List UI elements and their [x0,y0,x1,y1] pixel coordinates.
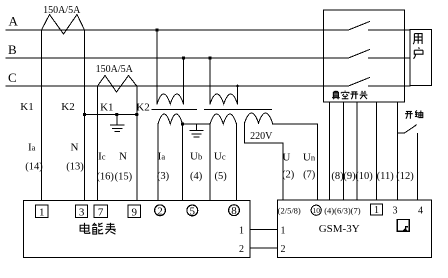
terminal number 3 GSM [393,206,398,217]
terminal number 5 meter [190,205,196,217]
svg-text:10: 10 [312,206,320,215]
wire PT2 primary return to phase C [237,86,239,104]
wire K2-K2 common link [85,114,137,116]
ground CT secondary [111,115,125,132]
terminal number 3 meter [79,206,85,218]
part label 开铀 switch [405,110,423,118]
wire PT2 secondary mid down [209,124,211,201]
svg-text:(13): (13) [66,162,84,173]
phase bus B [6,57,410,59]
node B tap PT2 [208,56,211,59]
pin label (2/5/8) GSM [278,206,301,216]
transformer PT2 secondary winding [210,114,237,124]
net label Un [303,152,316,164]
wire 220V left to GSM terminal 2/5/8 [245,123,284,200]
pin number 2 meter side [239,244,244,255]
switch blade phase A [349,22,370,31]
wire CT1 K1 to meter terminal 1 [41,30,43,201]
switch 开铀 stub [398,132,405,134]
svg-text:(5): (5) [214,171,227,182]
node A tap [155,28,158,31]
svg-text:2: 2 [281,244,286,255]
net label N CT2 [119,151,127,163]
net label Ic CT2 [98,151,106,163]
terminal 9 meter [128,205,141,217]
transformer PT2 primary winding [210,94,238,104]
svg-text:(12): (12) [396,171,414,182]
net label C [8,70,17,85]
value label CT1 150A/5A [43,5,81,16]
wire CT2 K1 to meter terminal 7 [97,86,99,201]
wire 220V right to GSM terminal 10 [273,124,318,200]
svg-text:3: 3 [79,206,85,218]
wire breaker to GSM terminal 6/3 [343,102,345,200]
svg-text:(10): (10) [355,171,373,182]
transformer PT1 secondary winding [158,114,183,124]
terminal 1 GSM box [371,204,383,215]
svg-text:1: 1 [239,226,244,237]
pin number 2 GSM side [281,244,286,255]
svg-text:Ic: Ic [98,151,106,163]
svg-text:8: 8 [231,205,237,217]
svg-text:150A/5A: 150A/5A [43,5,81,16]
pin label (2) [282,170,295,181]
terminal 1 meter [35,205,48,217]
pin label (9) [343,171,356,182]
net label Ia CT1 [28,142,36,154]
value label CT2 150A/5A [96,64,134,75]
wire breaker to GSM terminal 4(a) [329,102,331,200]
svg-text:N: N [119,151,127,163]
svg-text:Ub: Ub [190,151,202,163]
terminal number 7 meter [98,206,104,218]
svg-text:Un: Un [303,152,316,164]
svg-text:(16): (16) [96,172,114,183]
terminal number 8 meter [231,205,237,217]
antenna box GSM [397,220,409,232]
svg-text:Ia: Ia [158,151,166,163]
pin label K2 CT1 [61,101,74,113]
terminal number 4 GSM [418,206,423,217]
svg-text:150A/5A: 150A/5A [96,64,134,75]
svg-text:(2/5/8): (2/5/8) [278,206,301,216]
svg-text:U: U [282,152,290,164]
phase bus C [6,85,410,87]
svg-text:(11): (11) [377,171,395,182]
wire breaker to GSM terminal 1 [376,102,378,200]
net label A [9,14,19,29]
node C tap PT2 [236,85,239,88]
part label 用户 (user) [413,34,423,59]
terminal number 9 meter [131,206,137,218]
pin label (16) [96,172,114,183]
svg-text:220V: 220V [250,131,273,142]
GSM-3Y box [277,200,431,257]
svg-text:K1: K1 [20,101,33,113]
CT1 150A/5A on phase A [42,15,85,35]
net label B [8,42,17,57]
net label Ia PT [158,151,166,163]
svg-text:5: 5 [190,205,196,217]
wire PT1 primary return to phase B [183,58,185,104]
transformer PT1 core [152,109,197,111]
pin label (10) [355,171,373,182]
net label Uc [214,151,226,163]
node K2 CT1 junction [83,113,86,116]
wire meter 1 to GSM 1 [250,229,277,231]
svg-text:4: 4 [418,206,423,217]
pin label (11) [377,171,395,182]
pin label (4)(6/3)(7) GSM [324,206,361,216]
pin label (3) [157,171,170,182]
svg-text:7: 7 [98,206,104,218]
wire meter 2 to GSM 2 [250,247,277,249]
node ground tap junction [115,113,118,116]
breaker box 真空开关 [324,10,405,102]
pin label (14) [25,162,43,173]
svg-text:(9): (9) [343,171,356,182]
net label U [282,152,290,164]
svg-text:2: 2 [239,244,244,255]
svg-text:K2: K2 [61,101,74,113]
svg-text:(4)(6/3)(7): (4)(6/3)(7) [324,206,361,216]
pin label (5) [214,171,227,182]
svg-text:B: B [8,42,17,57]
wire PT2 secondary c to meter terminal 8 [236,124,238,201]
pin label (15) [115,172,133,183]
switch blade phase B [349,50,370,59]
pin label (12) [396,171,414,182]
pin label (13) [66,162,84,173]
CT2 150A/5A on phase C [98,76,137,93]
meter box 电能表 [23,201,250,258]
svg-text:GSM-3Y: GSM-3Y [319,223,360,235]
svg-text:(14): (14) [25,162,43,173]
svg-text:A: A [9,14,19,29]
wire breaker to GSM terminal 3 [397,102,399,200]
switch 开铀 blade [405,125,417,133]
pin number 1 meter side [239,226,244,237]
wire PT1 secondary b down [182,124,184,201]
svg-text:(2): (2) [282,170,295,181]
transformer 220V auxiliary winding [245,113,273,123]
pin label K1 CT1 [20,101,33,113]
ground PT secondary common [190,124,203,137]
svg-text:(15): (15) [115,172,133,183]
switch blade phase C [349,78,370,87]
terminal 5 meter [187,205,198,216]
terminal 8 meter [229,205,240,216]
terminal number 1 meter [39,206,45,218]
wire PT1 primary tap on phase A [156,30,158,104]
transformer PT2 core [205,109,272,111]
svg-text:(3): (3) [157,171,170,182]
value label 220V [250,131,273,142]
part label GSM-3Y [319,223,360,235]
wire CT1 K2 to meter terminal 3 [84,30,86,201]
pin number 1 GSM side [281,226,286,237]
pin label K2 CT2 [136,101,149,113]
pin label (7) [303,170,316,181]
wire CT2 K2 to meter terminal 9 [136,86,138,201]
svg-text:Uc: Uc [214,151,226,163]
node PT secondary common [181,122,184,125]
svg-text:N: N [71,142,79,154]
svg-text:(8): (8) [331,171,344,182]
svg-text:3: 3 [393,206,398,217]
svg-text:2: 2 [157,205,163,217]
svg-text:K2: K2 [136,101,149,113]
pin label (4) [190,171,203,182]
svg-text:(4): (4) [190,171,203,182]
svg-text:9: 9 [131,206,137,218]
terminal number 1 GSM [374,205,379,216]
terminal 10 GSM [311,205,321,215]
net label N CT1 [71,142,79,154]
wire PT secondary common link [183,123,211,125]
svg-text:Ia: Ia [28,142,36,154]
part label 真空开关 (vacuum switch) [332,91,367,100]
pin label K1 CT2 [100,101,113,113]
pin label (8) [331,171,344,182]
svg-text:1: 1 [374,205,379,216]
svg-text:1: 1 [39,206,45,218]
terminal 3 meter [76,205,88,217]
node K2 CT2 junction [135,113,138,116]
wire 开铀 to GSM terminal 4 [417,134,419,201]
terminal 2 meter [155,205,166,216]
node B tap PT1 [182,56,185,59]
phase bus A [6,29,410,31]
svg-text:C: C [8,70,17,85]
user box 用户 [410,30,432,86]
terminal number 10 GSM [312,206,320,215]
net label Ub [190,151,202,163]
wire PT1 secondary a to meter terminal 2 [157,124,159,201]
svg-text:(7): (7) [303,170,316,181]
svg-text:K1: K1 [100,101,113,113]
terminal 7 meter [94,205,107,217]
svg-text:1: 1 [281,226,286,237]
transformer PT1 primary winding [157,94,184,104]
wire breaker to GSM terminal 7(b) [356,102,358,200]
part label 电能表 (energy meter) [80,223,116,234]
terminal number 2 meter [157,205,163,217]
wire PT2 primary tap on phase B [209,58,211,104]
